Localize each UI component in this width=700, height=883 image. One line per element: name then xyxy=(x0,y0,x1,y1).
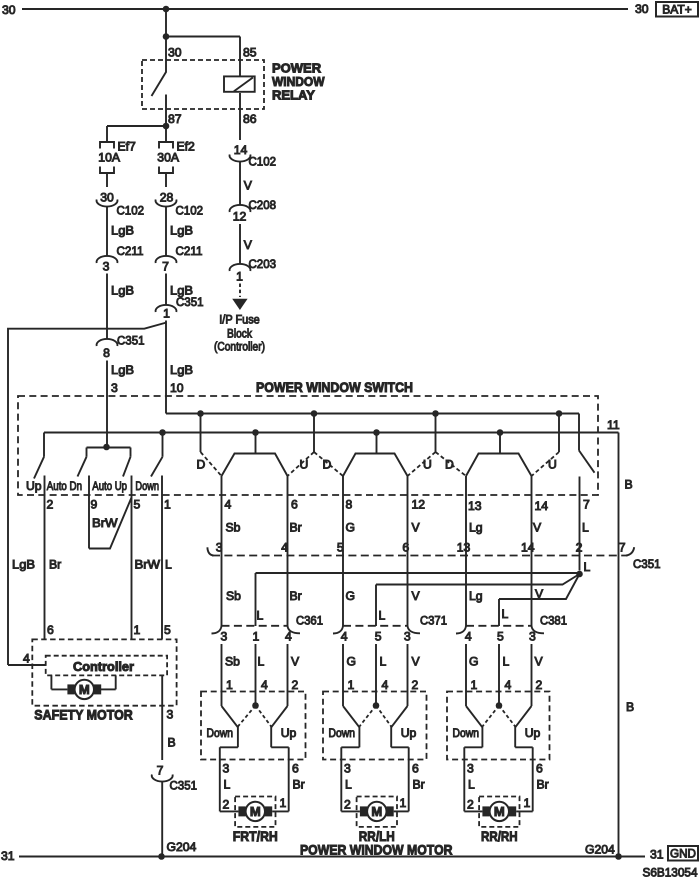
svg-text:Down: Down xyxy=(453,726,480,740)
svg-text:1: 1 xyxy=(253,630,260,644)
svg-text:LgB: LgB xyxy=(12,558,35,572)
svg-text:C102: C102 xyxy=(117,204,145,218)
svg-text:Br: Br xyxy=(290,589,302,603)
svg-text:BAT+: BAT+ xyxy=(662,3,691,17)
svg-text:1: 1 xyxy=(348,678,355,692)
svg-text:Ef2: Ef2 xyxy=(177,140,196,154)
svg-text:Lg: Lg xyxy=(469,589,483,603)
svg-text:3: 3 xyxy=(529,630,536,644)
svg-text:L: L xyxy=(502,607,509,621)
svg-text:SAFETY MOTOR: SAFETY MOTOR xyxy=(34,707,133,723)
svg-text:2: 2 xyxy=(576,541,583,555)
svg-text:G: G xyxy=(346,589,355,603)
svg-text:C102: C102 xyxy=(249,155,277,169)
svg-text:5: 5 xyxy=(164,623,171,637)
svg-text:LgB: LgB xyxy=(111,284,134,298)
svg-text:M: M xyxy=(494,804,505,819)
svg-text:Up: Up xyxy=(525,726,541,740)
svg-text:Br: Br xyxy=(413,778,425,792)
svg-text:Br: Br xyxy=(537,778,549,792)
svg-text:L: L xyxy=(345,778,352,792)
svg-text:B: B xyxy=(626,700,634,714)
svg-text:LgB: LgB xyxy=(111,224,134,238)
svg-text:L: L xyxy=(380,655,387,669)
svg-text:6: 6 xyxy=(291,498,298,512)
svg-text:M: M xyxy=(371,804,382,819)
svg-text:C208: C208 xyxy=(249,198,277,212)
svg-text:2: 2 xyxy=(412,678,419,692)
svg-text:C351: C351 xyxy=(170,779,198,793)
svg-text:87: 87 xyxy=(168,112,182,126)
svg-text:31: 31 xyxy=(650,848,664,862)
svg-text:4: 4 xyxy=(225,498,232,512)
svg-text:L: L xyxy=(258,655,265,669)
svg-text:30: 30 xyxy=(168,46,182,60)
svg-text:Auto Up: Auto Up xyxy=(92,479,127,493)
svg-text:L: L xyxy=(468,778,475,792)
svg-text:G204: G204 xyxy=(585,843,615,857)
svg-text:G204: G204 xyxy=(167,840,197,854)
svg-text:1: 1 xyxy=(164,498,171,512)
svg-text:POWER WINDOW MOTOR: POWER WINDOW MOTOR xyxy=(300,842,453,858)
svg-text:C102: C102 xyxy=(176,204,204,218)
svg-text:Sb: Sb xyxy=(225,655,240,669)
svg-text:14: 14 xyxy=(521,541,535,555)
svg-text:S6B13054: S6B13054 xyxy=(643,866,698,880)
svg-text:C361: C361 xyxy=(296,614,323,628)
svg-text:30: 30 xyxy=(635,2,649,16)
svg-text:C351: C351 xyxy=(117,334,145,348)
svg-text:Ef7: Ef7 xyxy=(118,140,137,154)
svg-text:L: L xyxy=(257,609,264,623)
svg-text:Block: Block xyxy=(227,327,253,341)
svg-text:L: L xyxy=(582,521,589,535)
svg-text:Down: Down xyxy=(207,726,234,740)
svg-text:Controller: Controller xyxy=(73,659,134,674)
svg-text:D: D xyxy=(445,458,454,472)
svg-text:3: 3 xyxy=(111,381,118,395)
svg-text:1: 1 xyxy=(471,678,478,692)
svg-text:30: 30 xyxy=(100,191,114,205)
svg-text:2: 2 xyxy=(467,798,474,812)
svg-text:5: 5 xyxy=(497,630,504,644)
svg-text:2: 2 xyxy=(344,798,351,812)
svg-text:30: 30 xyxy=(2,3,16,17)
svg-text:FRT/RH: FRT/RH xyxy=(233,828,278,844)
svg-text:Up: Up xyxy=(401,726,417,740)
svg-text:L: L xyxy=(165,558,172,572)
svg-text:3: 3 xyxy=(404,630,411,644)
svg-text:Lg: Lg xyxy=(469,521,483,535)
svg-text:3: 3 xyxy=(221,630,228,644)
svg-text:14: 14 xyxy=(535,499,549,513)
svg-text:6: 6 xyxy=(412,762,419,776)
svg-text:LgB: LgB xyxy=(170,224,193,238)
svg-text:4: 4 xyxy=(465,630,472,644)
svg-text:Up: Up xyxy=(26,479,42,493)
svg-text:3: 3 xyxy=(216,541,223,555)
svg-text:L: L xyxy=(503,655,510,669)
svg-text:L: L xyxy=(584,560,591,574)
svg-text:14: 14 xyxy=(234,143,248,157)
svg-text:3: 3 xyxy=(103,260,110,274)
svg-text:V: V xyxy=(535,655,544,669)
svg-text:C211: C211 xyxy=(176,244,203,258)
svg-text:V: V xyxy=(412,589,421,603)
svg-text:C371: C371 xyxy=(420,614,447,628)
svg-text:C203: C203 xyxy=(249,257,277,271)
svg-text:M: M xyxy=(79,682,90,697)
svg-text:L: L xyxy=(379,609,386,623)
svg-text:Sb: Sb xyxy=(226,589,241,603)
svg-text:POWER WINDOW SWITCH: POWER WINDOW SWITCH xyxy=(256,379,413,395)
svg-text:8: 8 xyxy=(346,498,353,512)
svg-text:6: 6 xyxy=(292,762,299,776)
svg-text:C351: C351 xyxy=(633,557,661,571)
svg-text:C351: C351 xyxy=(176,295,204,309)
svg-text:4: 4 xyxy=(382,678,389,692)
svg-text:V: V xyxy=(533,521,542,535)
svg-text:2: 2 xyxy=(223,798,230,812)
svg-text:3: 3 xyxy=(467,762,474,776)
svg-text:I/P Fuse: I/P Fuse xyxy=(219,313,260,327)
svg-text:U: U xyxy=(548,458,557,472)
svg-text:G: G xyxy=(346,521,355,535)
svg-text:8: 8 xyxy=(103,346,110,360)
svg-text:4: 4 xyxy=(261,678,268,692)
svg-text:3: 3 xyxy=(223,762,230,776)
svg-text:B: B xyxy=(168,736,176,750)
svg-text:RELAY: RELAY xyxy=(272,88,315,103)
svg-text:D: D xyxy=(197,458,206,472)
svg-text:3: 3 xyxy=(344,762,351,776)
svg-text:85: 85 xyxy=(243,46,257,60)
svg-text:7: 7 xyxy=(162,260,169,274)
svg-text:4: 4 xyxy=(281,541,288,555)
svg-text:LgB: LgB xyxy=(111,363,134,377)
svg-text:RR/RH: RR/RH xyxy=(481,828,518,844)
svg-text:G: G xyxy=(469,655,478,669)
svg-text:1: 1 xyxy=(163,307,170,321)
svg-text:(Controller): (Controller) xyxy=(214,340,265,354)
svg-text:D: D xyxy=(323,458,332,472)
svg-text:GND: GND xyxy=(670,847,696,861)
svg-text:2: 2 xyxy=(292,678,299,692)
svg-text:12: 12 xyxy=(233,210,247,224)
svg-text:M: M xyxy=(250,804,261,819)
svg-text:1: 1 xyxy=(134,623,141,637)
svg-text:U: U xyxy=(423,458,432,472)
svg-text:1: 1 xyxy=(236,270,243,284)
svg-text:BrW: BrW xyxy=(92,516,118,530)
svg-text:V: V xyxy=(412,521,421,535)
svg-text:31: 31 xyxy=(1,849,15,863)
svg-text:1: 1 xyxy=(226,678,233,692)
svg-text:6: 6 xyxy=(402,541,409,555)
svg-text:4: 4 xyxy=(341,630,348,644)
svg-text:86: 86 xyxy=(243,112,257,126)
svg-text:1: 1 xyxy=(524,796,531,810)
svg-text:Down: Down xyxy=(135,479,159,493)
svg-text:13: 13 xyxy=(468,499,482,513)
svg-text:V: V xyxy=(244,179,253,193)
svg-text:LgB: LgB xyxy=(170,363,193,377)
svg-text:28: 28 xyxy=(160,191,174,205)
svg-text:1: 1 xyxy=(400,796,407,810)
svg-text:4: 4 xyxy=(505,678,512,692)
svg-text:V: V xyxy=(291,655,300,669)
svg-text:1: 1 xyxy=(280,796,287,810)
svg-text:Br: Br xyxy=(49,558,61,572)
svg-text:L: L xyxy=(224,778,231,792)
svg-text:Br: Br xyxy=(293,778,305,792)
svg-text:Br: Br xyxy=(290,521,302,535)
svg-text:5: 5 xyxy=(337,541,344,555)
svg-text:3: 3 xyxy=(167,708,174,722)
svg-text:11: 11 xyxy=(607,418,620,432)
svg-text:V: V xyxy=(412,655,421,669)
svg-text:Auto Dn: Auto Dn xyxy=(47,479,82,493)
svg-text:2: 2 xyxy=(536,678,543,692)
svg-text:10: 10 xyxy=(170,381,184,395)
svg-text:V: V xyxy=(244,238,253,252)
svg-text:Sb: Sb xyxy=(226,521,241,535)
svg-text:6: 6 xyxy=(536,762,543,776)
svg-text:4: 4 xyxy=(23,652,30,666)
svg-text:7: 7 xyxy=(583,498,590,512)
svg-text:7: 7 xyxy=(619,541,626,555)
svg-text:9: 9 xyxy=(91,498,98,512)
svg-text:G: G xyxy=(347,655,356,669)
svg-text:13: 13 xyxy=(457,541,471,555)
svg-text:BrW: BrW xyxy=(135,558,161,572)
svg-text:12: 12 xyxy=(412,498,426,512)
svg-text:B: B xyxy=(625,478,633,492)
svg-text:5: 5 xyxy=(375,630,382,644)
svg-text:C211: C211 xyxy=(117,244,144,258)
svg-text:C381: C381 xyxy=(540,614,567,628)
svg-text:Down: Down xyxy=(329,726,356,740)
svg-text:U: U xyxy=(300,458,309,472)
svg-text:2: 2 xyxy=(47,498,54,512)
svg-text:Up: Up xyxy=(281,726,297,740)
svg-text:5: 5 xyxy=(134,498,141,512)
svg-text:6: 6 xyxy=(47,623,54,637)
svg-text:4: 4 xyxy=(285,630,292,644)
svg-text:7: 7 xyxy=(157,764,164,778)
